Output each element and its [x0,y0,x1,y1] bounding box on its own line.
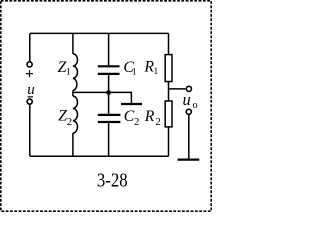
svg-text:o: o [193,100,198,111]
svg-text:2: 2 [67,116,72,128]
svg-text:u: u [183,90,191,109]
svg-text:3-28: 3-28 [97,169,128,191]
svg-text:u: u [27,82,35,98]
svg-text:1: 1 [153,66,158,77]
svg-text:R: R [144,108,155,125]
svg-text:2: 2 [155,116,160,128]
svg-text:1: 1 [66,66,71,77]
svg-text:1: 1 [132,66,137,77]
svg-text:2: 2 [134,116,139,128]
